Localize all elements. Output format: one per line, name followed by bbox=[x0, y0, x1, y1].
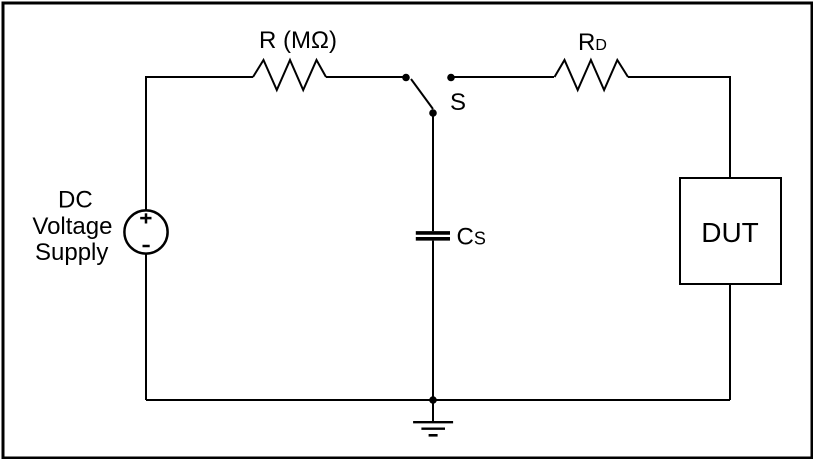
resistor R (M ohm) zigzag bbox=[253, 60, 326, 90]
resistor RD zigzag bbox=[555, 60, 629, 90]
ground symbol bbox=[413, 400, 453, 435]
wire: from switch throw down to capacitor CS bbox=[432, 111, 434, 231]
capacitor CS top plate bbox=[416, 231, 450, 235]
svg-text:CS: CS bbox=[457, 224, 486, 251]
switch S throw dot bbox=[429, 109, 437, 117]
junction dot at ground node bbox=[429, 396, 437, 404]
wire: left vertical from top-left corner down to supply + terminal bbox=[145, 77, 147, 210]
switch S blade bbox=[411, 79, 433, 109]
wire: from resistor RD to right corner and down to DUT top bbox=[628, 77, 730, 178]
switch S right contact dot bbox=[447, 74, 455, 82]
wire: from supply - terminal down to bottom rail bbox=[145, 254, 147, 400]
DC voltage supply circle bbox=[124, 210, 167, 253]
wire: from capacitor CS down to bottom rail bbox=[432, 241, 434, 400]
wire: from switch right contact to resistor RD bbox=[451, 76, 554, 78]
wire: top rail from left corner to resistor R bbox=[145, 76, 253, 78]
bottom rail wire bbox=[146, 399, 730, 401]
minus terminal mark bbox=[143, 245, 150, 248]
wire: from DUT bottom to bottom rail bbox=[729, 284, 731, 400]
svg-text:S: S bbox=[450, 89, 466, 116]
svg-text:DUT: DUT bbox=[701, 217, 759, 248]
wire: from resistor R to switch pole bbox=[326, 76, 406, 78]
svg-text:R (MΩ): R (MΩ) bbox=[259, 27, 337, 54]
plus terminal mark bbox=[140, 213, 151, 223]
switch S pole dot bbox=[402, 74, 410, 82]
DUT box bbox=[680, 178, 781, 284]
capacitor CS bottom plate bbox=[416, 237, 450, 241]
